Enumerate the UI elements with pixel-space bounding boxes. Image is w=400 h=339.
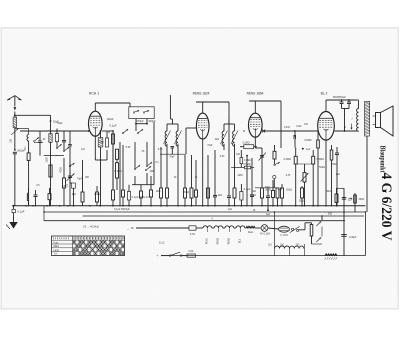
capacitor C15 800pF (347, 99, 351, 108)
capacitor C12 (294, 131, 296, 148)
wire U2 left (186, 128, 196, 154)
wire x247 drop (246, 155, 248, 207)
label BL 2 (321, 92, 328, 96)
pot volume (301, 164, 309, 207)
labels row values (72, 193, 256, 197)
resistor R19 150 (330, 145, 333, 207)
wire x147 drop (146, 142, 148, 165)
wire bus2 (44, 206, 365, 212)
wire x103 drop (100, 147, 102, 206)
tube U2 RENS1824 (196, 113, 209, 139)
wire antenna col down (14, 136, 16, 151)
wire col x64 (63, 131, 65, 140)
switch S11 (274, 162, 280, 166)
wire x215 (214, 150, 216, 195)
wire x330 drop (335, 188, 344, 206)
wire heater line (127, 227, 189, 231)
switch box S10 (129, 107, 154, 119)
resistor R20 (48, 188, 51, 207)
wire x277.5 drop (276, 188, 279, 207)
capacitor C18 1uF right (342, 193, 347, 256)
IFT2 secondary (233, 124, 235, 150)
resistor R6 5042 (116, 159, 119, 190)
heating resistor RW (325, 254, 337, 260)
capacitor C7 (171, 147, 175, 155)
transformer T1 top wire (356, 100, 359, 104)
resistor R2b (63, 178, 66, 206)
wire x355 drop (354, 193, 357, 212)
rectifier U1718 (Urdox) (279, 226, 290, 237)
wire col x40 (38, 131, 42, 156)
switch S4 (69, 163, 74, 206)
wire y155 link (44, 155, 64, 157)
wire x170 tall (170, 95, 172, 119)
table frame (52, 236, 125, 256)
wire x191.5 drop (190, 155, 193, 207)
label 1kOhm3 (251, 189, 256, 193)
wire U2 bottom (202, 139, 204, 206)
switch S7 (134, 165, 140, 170)
wire bus4 (44, 212, 345, 221)
node c12 (295, 148, 304, 150)
label 0,1uF/500V (132, 195, 151, 199)
label 150Ohm (331, 163, 337, 166)
capacitor C20 (227, 150, 231, 206)
capacitor C0 0.1uF at ground (12, 205, 15, 222)
capacitor C24 1nF (62, 183, 76, 206)
wire U4 anode right (334, 108, 358, 132)
wire x344 top (343, 190, 345, 193)
wire U1 anode right (102, 130, 114, 132)
label 470pF (136, 119, 144, 123)
switch S2 (33, 137, 39, 142)
IFT2 top (224, 119, 235, 124)
misc tiny labels (43, 132, 225, 159)
label RENS 1824 (193, 92, 210, 96)
wire U3 bottom (255, 137, 262, 148)
capacitor C13 1uF (302, 148, 311, 151)
capacitor C3 (62, 141, 66, 151)
lamp LP1 (255, 225, 279, 232)
coil L2 (27, 134, 29, 153)
jack TA (273, 175, 276, 188)
label 0,5MOhm (317, 158, 325, 161)
table row labels (54, 241, 60, 255)
wire x154 drop (153, 122, 155, 185)
left col labels (10, 138, 69, 187)
transformer T1 core (365, 102, 370, 137)
resistor R30 0,2M (240, 145, 257, 149)
wire col x70 (68, 131, 72, 165)
wire U1 grid left (20, 130, 89, 132)
capacitor C17 (34, 190, 38, 207)
selector stubs (275, 212, 305, 249)
tube U3 RENS1854 (249, 113, 263, 137)
wire y164 link (296, 163, 314, 165)
resistor R1 (27, 153, 30, 206)
resistor R25 (122, 145, 125, 206)
trimmer arrow (11, 128, 18, 137)
table grid (52, 236, 125, 256)
capacitor C6 box (127, 185, 130, 207)
label 4nF (278, 189, 283, 192)
label 1MOhm (149, 170, 154, 173)
wire caps join (342, 107, 350, 110)
tube U1 RCH1 (89, 111, 103, 136)
resistor R15 02M (294, 148, 297, 207)
label 300pF (148, 119, 156, 123)
label 50kOhm (299, 200, 305, 203)
wire U4 bottom (325, 140, 327, 206)
resistor R7 30k (116, 149, 119, 159)
wire x82 drop (81, 160, 84, 206)
switch arrows right (316, 221, 321, 242)
IFT1 primary (165, 124, 167, 150)
transformer T1 bottom wire (366, 136, 368, 212)
capacitor C11 (269, 148, 271, 176)
label above table (83, 225, 99, 229)
node antenna junction (14, 114, 16, 116)
resistor R4 (112, 134, 115, 190)
label 20kOhm (183, 190, 189, 194)
mains plus (157, 254, 169, 258)
label 0,1uF (18, 210, 25, 214)
wire x161 drop (160, 147, 162, 188)
wire x167 drop (166, 150, 168, 188)
antenna coil L1 (13, 115, 17, 127)
label 5000 (265, 189, 271, 192)
wire x178 drop (177, 150, 179, 207)
bus junction dots (12, 205, 366, 217)
wire bottom mains (161, 255, 365, 257)
table header cols (74, 237, 123, 240)
component col x57 (55, 129, 58, 148)
resistor R27 (150, 176, 153, 206)
label 0,1MOhm (114, 170, 122, 173)
capacitor C5 20nF (105, 133, 108, 160)
resistor R18 50k (301, 186, 304, 207)
trimmer C23 70pF (66, 164, 83, 183)
resistor R12 (233, 188, 236, 207)
table header text (54, 237, 69, 239)
wire x57 down (56, 154, 58, 157)
wire x234 drop (234, 150, 236, 188)
label RENS 1854 (247, 92, 264, 96)
resistor R24 (96, 186, 99, 206)
wire U2 top loop (196, 102, 229, 140)
switch S3 (56, 144, 61, 149)
label 300 (359, 198, 365, 201)
wire y142 link (34, 142, 43, 144)
label 3000pF (17, 150, 26, 153)
label 0,1uF bus (228, 208, 233, 211)
resistor R17 20k (281, 184, 284, 207)
capacitor C2 (13, 152, 17, 206)
switch S5 (122, 129, 128, 134)
IFT2 primary (222, 124, 224, 150)
resistor R29 (272, 180, 275, 206)
transformer box 6,3V (189, 226, 203, 236)
wire box taps (135, 119, 148, 125)
label 3nF (304, 123, 309, 126)
wire x135 drop2 (134, 176, 136, 185)
selector labels (268, 245, 300, 247)
node 1uF dot (266, 209, 271, 216)
wire x120 drop (119, 142, 121, 207)
wire antenna row (15, 115, 52, 122)
voltage selector coils (275, 246, 305, 256)
wire y187.6 (255, 187, 278, 189)
capacitor C8 (213, 196, 217, 207)
IFT1 arrows (164, 131, 182, 145)
contact circles (290, 226, 300, 232)
wire x135 drop (134, 142, 136, 168)
label 0,1uF3 (244, 187, 251, 191)
heater taps (207, 228, 240, 232)
heater tap labels (206, 237, 241, 244)
capacitor C16 (335, 147, 339, 207)
trimmer C10 (259, 153, 267, 161)
wire U4 grid (317, 131, 320, 207)
title 4G6/220V (378, 173, 394, 242)
wire U1 top (95, 103, 130, 111)
label R32 (244, 160, 251, 162)
ground (6, 222, 18, 229)
label 20nF (99, 140, 104, 144)
wire x229 down (228, 140, 230, 150)
coil L4 osc (98, 130, 103, 147)
label 1kOhm 2 (156, 189, 161, 193)
label R31 (243, 163, 250, 166)
resistor R5 (112, 190, 115, 207)
resistor R28 (195, 160, 198, 206)
switch S10b (143, 110, 149, 113)
fuse F1 (182, 250, 196, 257)
label 800/800pF (333, 95, 346, 99)
transformer T1 primary coil (357, 104, 359, 132)
wire box to top (130, 103, 136, 131)
label 1MOhm r29 (265, 186, 270, 189)
switch S1b (63, 147, 69, 178)
wire y154 link (160, 153, 186, 155)
label R30 (242, 142, 249, 145)
label 11ohm (159, 241, 164, 245)
label 20kOhm2 (286, 189, 292, 192)
capacitor C22 (266, 188, 270, 210)
IFT2 arrows (221, 131, 239, 145)
wire link y184.7 (132, 184, 154, 186)
capacitor C19 2x8uF (341, 235, 357, 240)
resistor R14 0,1 (273, 145, 276, 164)
label 0,2MOhm (284, 158, 292, 161)
capacitor C9 box (240, 184, 243, 207)
wire U3 top loop (249, 101, 281, 148)
switch S9 (146, 162, 152, 167)
switch S8 (145, 166, 151, 171)
IFT1 top wires (167, 119, 178, 124)
switch S10a (133, 110, 139, 113)
scatter labels (36, 119, 353, 221)
table X marks (73, 241, 124, 255)
resistor R13 (261, 188, 264, 207)
coil L5 (27, 188, 28, 207)
wire rect steps (299, 223, 312, 230)
heater coils (203, 226, 246, 228)
label 20pF (53, 120, 59, 123)
wire x147 drop2 (146, 173, 148, 185)
label 6V 018A (260, 233, 270, 236)
label 100pF (106, 118, 114, 121)
wire U4 top (326, 100, 356, 112)
resistor R16 05M (312, 150, 315, 207)
speaker LS (373, 106, 394, 136)
resistor R2 (49, 165, 52, 177)
wire grid line y131 (50, 130, 89, 132)
wire bus1 (ground rail) (13, 205, 366, 207)
capacitor C14 800pF (340, 99, 344, 108)
wire right riser (364, 212, 366, 256)
label 1uF right (348, 198, 353, 202)
wire bus3 (83, 215, 365, 217)
resistor R31 0,5M (231, 166, 254, 169)
switch S12 mains (169, 252, 182, 256)
label RCH 1 (89, 92, 99, 96)
resistor R21 zig (246, 226, 255, 234)
wire x322 (312, 216, 323, 244)
resistor R26 (140, 185, 143, 206)
label 2kOhm (215, 138, 220, 141)
resistor R10 (184, 155, 187, 207)
wire U1 cathode (95, 136, 107, 160)
resistor R8 1k (160, 188, 163, 207)
title Blaupunkt (379, 146, 387, 174)
switch S6 (137, 129, 143, 134)
antenna (7, 96, 22, 116)
tube U4 BL2 (318, 112, 335, 141)
label 1kOhm (105, 130, 110, 134)
wire x208 drop (207, 155, 210, 207)
capacitor C21 (250, 158, 254, 206)
wire x113 drop (112, 131, 114, 190)
resistor R22 (310, 223, 313, 244)
x mark U3 (262, 130, 265, 189)
wire U3 coupling (262, 130, 318, 132)
resistor R32 0,1M (240, 150, 248, 168)
resistor R9 (166, 188, 169, 207)
IFT1 secondary (176, 124, 178, 150)
label 30kOhm (326, 191, 352, 199)
coil L3 (49, 121, 52, 206)
node U1 grid (88, 130, 90, 132)
wire y128 link (15, 129, 29, 135)
label 0,1uF u1 (109, 124, 116, 128)
